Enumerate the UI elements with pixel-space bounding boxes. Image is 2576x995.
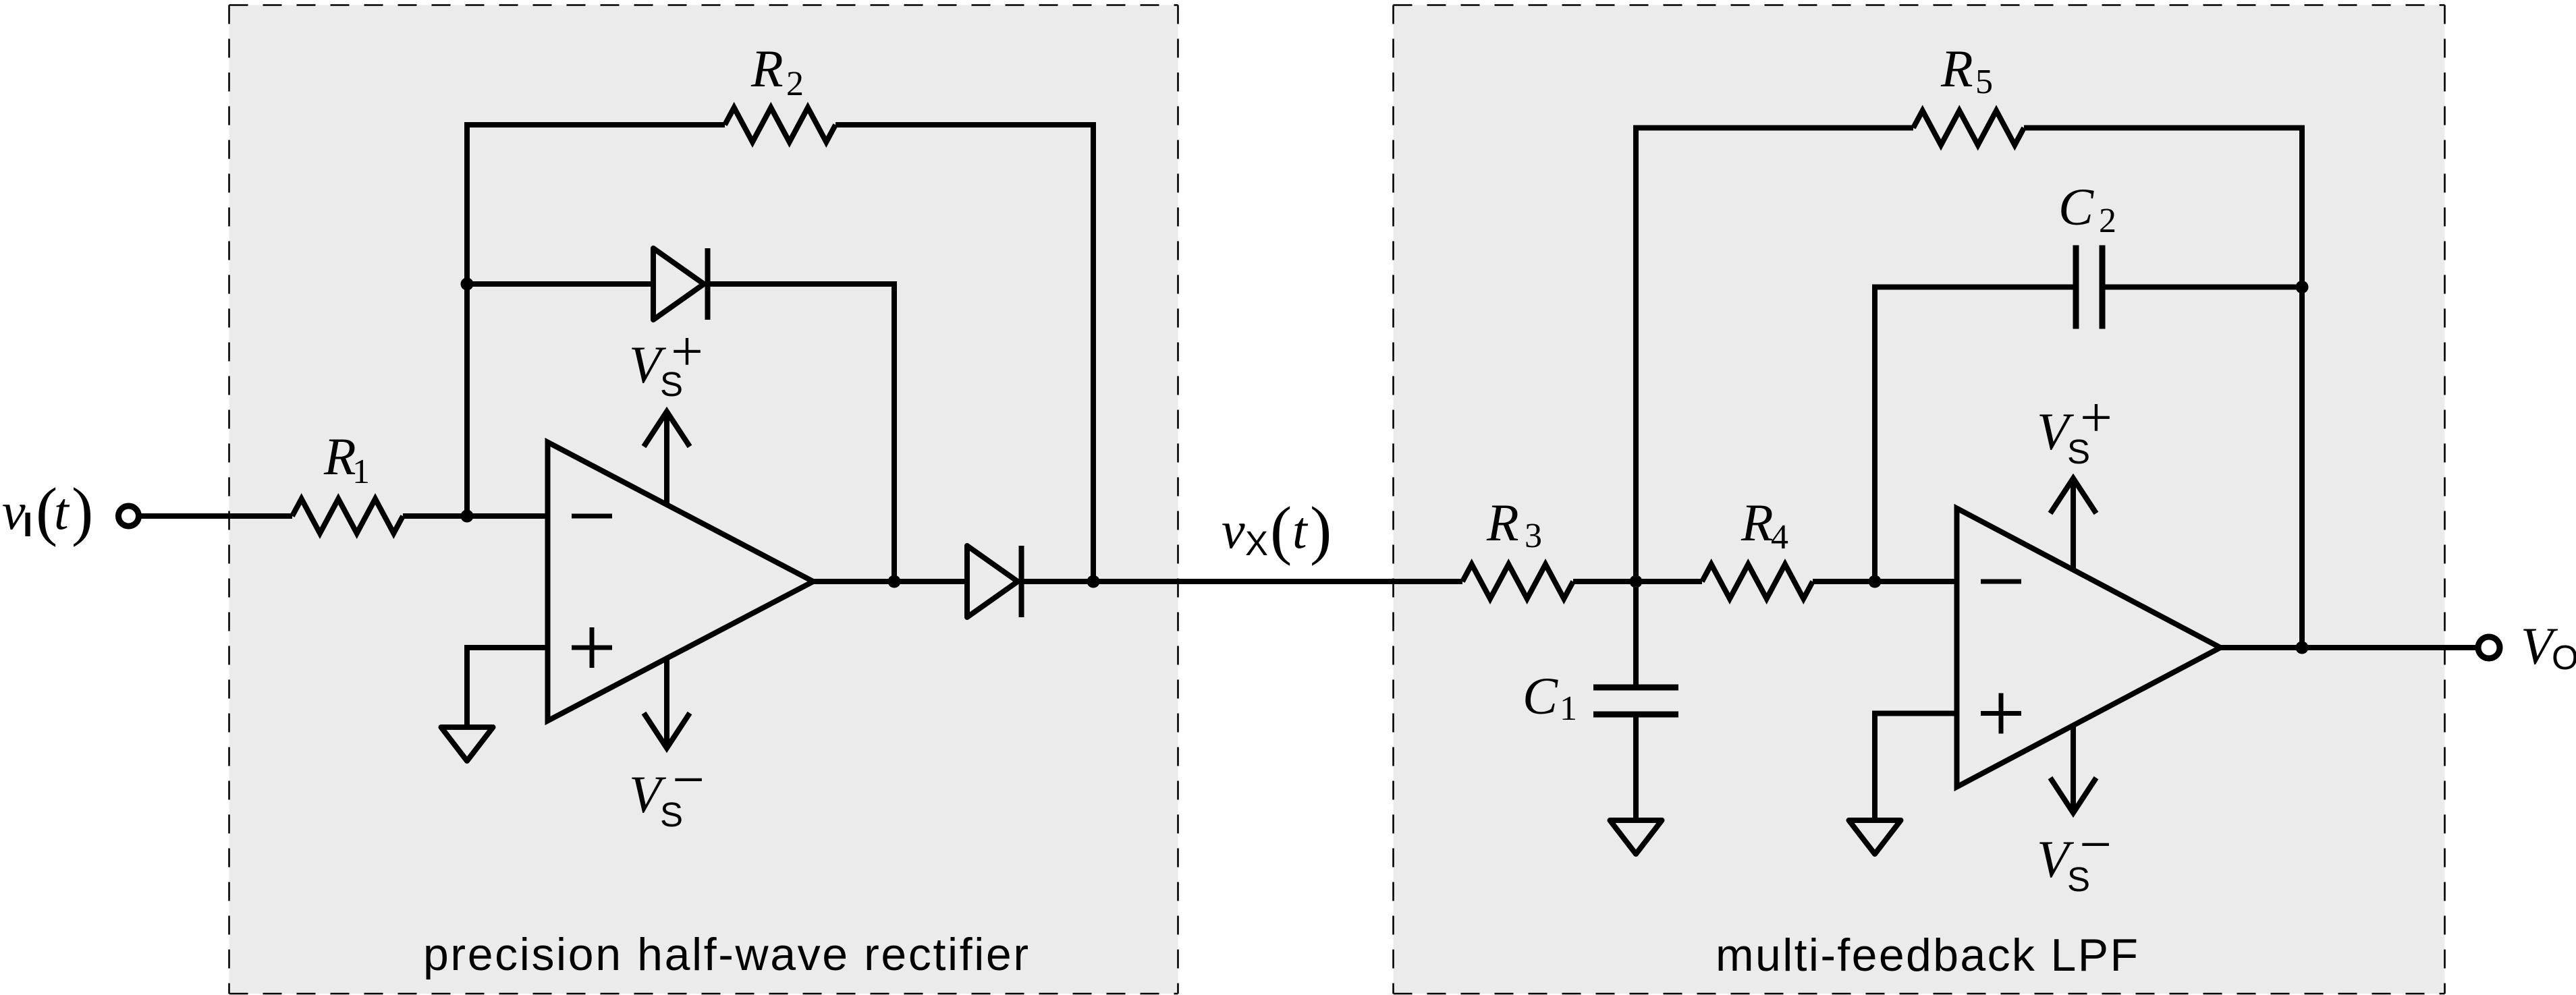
- resistor R3: [1462, 565, 1573, 599]
- wire: C2 left segment: [1872, 285, 2076, 290]
- svg-text:5: 5: [1975, 63, 1993, 101]
- svg-text:t: t: [54, 482, 70, 540]
- node: diode branch tap on feedback vertical: [461, 278, 474, 291]
- svg-text:R: R: [1741, 493, 1774, 552]
- wire: U1 non-inverting input to ground: [464, 645, 548, 650]
- wire: R2 top left segment: [464, 122, 725, 127]
- label vI(t): [2, 475, 93, 547]
- wire: R3 to node A: [1573, 579, 1702, 584]
- wire: U2 output to terminal VO: [2220, 645, 2475, 650]
- svg-text:+: +: [2080, 386, 2112, 449]
- terminal vI(t) input: [119, 506, 139, 526]
- svg-text:t: t: [1292, 501, 1309, 559]
- wire: inverting node to diode D1: [467, 281, 653, 287]
- wire: feedback left vertical (inverting node up to R2): [464, 122, 470, 519]
- node: C2/R5 right junction: [2296, 281, 2309, 293]
- wire: R5 right segment: [2024, 125, 2305, 131]
- wire: C1 to ground: [1633, 714, 1639, 820]
- svg-text:R: R: [1940, 39, 1973, 98]
- svg-text:C: C: [1523, 666, 1558, 725]
- node: U1 output junction: [888, 575, 901, 588]
- node B (junction R4/C2/U2 inverting input): [1869, 575, 1882, 588]
- wire: node A vertical up to R5 feedback: [1633, 125, 1639, 585]
- label V_S- (U1): [629, 748, 705, 834]
- label R1: [323, 427, 370, 491]
- wire: R5 left segment: [1633, 125, 1913, 131]
- op-amp U1 V_S- supply arrow: [664, 659, 669, 747]
- ground (C1): [1610, 820, 1662, 854]
- label R2: [750, 39, 804, 103]
- label C1: [1523, 666, 1577, 728]
- wire: R2 top right segment: [835, 122, 1096, 127]
- wire: U1 output to diode D2: [813, 579, 967, 584]
- label R5: [1940, 39, 1993, 101]
- wire: input terminal to R1: [138, 513, 292, 519]
- svg-text:R: R: [1486, 493, 1519, 552]
- label R4: [1741, 493, 1788, 557]
- label vX(t): [1222, 494, 1332, 566]
- label V_S+ (U2): [2037, 386, 2112, 471]
- node: rectifier output junction: [1087, 575, 1100, 588]
- svg-text:2: 2: [2099, 202, 2116, 240]
- wire: R1 to op-amp U1 inverting input: [403, 513, 548, 519]
- ground (U1 non-inverting input): [441, 727, 493, 761]
- label V_S+ (U1): [629, 320, 703, 403]
- svg-text:v: v: [1222, 501, 1245, 559]
- svg-text:R: R: [323, 427, 356, 486]
- wire: R4 to op-amp U2 inverting input: [1813, 579, 1957, 584]
- label V_S- (U2): [2037, 813, 2112, 899]
- label C2: [2058, 177, 2116, 240]
- wire: U2 non-inverting input to ground: [1872, 711, 1957, 716]
- svg-text:1: 1: [1560, 689, 1577, 728]
- svg-text:v: v: [2, 482, 26, 540]
- svg-text:−: −: [672, 748, 705, 812]
- svg-text:precision half-wave rectifier: precision half-wave rectifier: [423, 929, 1029, 980]
- svg-text:multi-feedback LPF: multi-feedback LPF: [1716, 930, 2138, 981]
- node A (junction R3/R4/C1/R5): [1630, 575, 1643, 588]
- op-amp U1: [548, 443, 814, 721]
- terminal VO output: [2478, 637, 2500, 658]
- wire: C2 right segment: [2102, 285, 2302, 290]
- svg-text:(: (: [1270, 494, 1292, 566]
- svg-text:I: I: [23, 505, 32, 544]
- ground (U2 non-inverting input): [1849, 820, 1901, 854]
- diode D1 (feedback): [653, 248, 704, 320]
- op-amp U2: [1957, 509, 2221, 787]
- diode D2 (series output): [967, 546, 1018, 617]
- svg-text:4: 4: [1771, 518, 1788, 557]
- node: inverting input junction: [461, 510, 474, 523]
- wire: node B vertical up to C2: [1872, 285, 1878, 585]
- wire: node A down to C1: [1633, 581, 1639, 687]
- node: U2 output junction: [2296, 642, 2309, 654]
- wire: R2 right vertical down to output node: [1091, 122, 1096, 581]
- resistor R5: [1913, 111, 2024, 145]
- wire: D1 branch vertical down to op-amp output: [892, 281, 897, 581]
- svg-text:C: C: [2058, 177, 2094, 236]
- svg-text:3: 3: [1525, 517, 1542, 555]
- op-amp U2 V_S- supply arrow: [2071, 725, 2076, 812]
- label R3: [1486, 493, 1542, 555]
- wire: D1 to right corner: [708, 281, 898, 287]
- label VO: [2521, 617, 2576, 677]
- svg-text:O: O: [2552, 638, 2576, 677]
- capacitor C1: [1593, 687, 1678, 714]
- svg-text:−: −: [2079, 813, 2112, 876]
- svg-text:2: 2: [786, 65, 804, 103]
- capacitor C2: [2076, 246, 2102, 329]
- op-amp U2 V_S+ supply arrow: [2071, 480, 2076, 570]
- svg-text:+: +: [671, 320, 703, 383]
- wire: D2 to LPF input (node vX): [1022, 579, 1463, 584]
- resistor R2: [725, 108, 835, 142]
- svg-text:X: X: [1245, 524, 1268, 563]
- svg-text:1: 1: [352, 453, 370, 491]
- dashed box: precision half-wave rectifier block: [229, 5, 1178, 994]
- resistor R4: [1702, 565, 1813, 599]
- svg-text:): ): [72, 475, 93, 547]
- wire: R5 right vertical down to U2 output: [2299, 125, 2305, 648]
- op-amp U1 V_S+ supply arrow: [664, 414, 669, 504]
- resistor R1: [292, 499, 403, 534]
- dashed box: multi-feedback LPF block: [1394, 5, 2445, 994]
- svg-text:R: R: [750, 39, 784, 98]
- svg-text:): ): [1310, 494, 1332, 566]
